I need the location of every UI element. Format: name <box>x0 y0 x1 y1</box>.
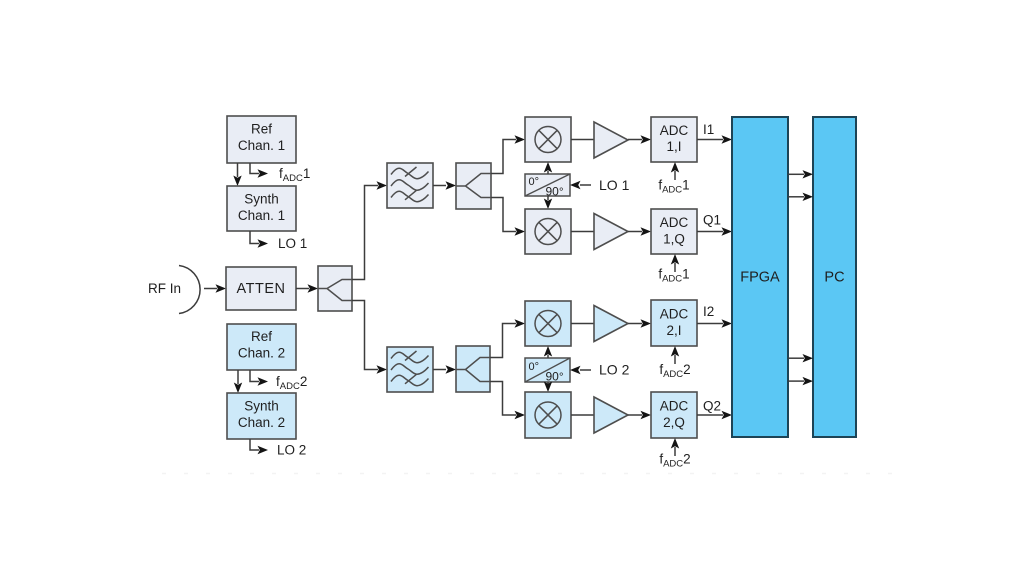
svg-text:Synth: Synth <box>244 192 279 207</box>
attenuator ATTEN <box>226 267 296 310</box>
block ADC 2,I <box>651 300 697 346</box>
wire fADC2 clock into ADC 2,Q <box>671 438 679 456</box>
wire splitter S1 to filter F1 <box>352 181 387 279</box>
wire amplifier A3 to ADC 2,I <box>628 319 651 327</box>
phase shifter P1 (0/90) <box>525 174 570 199</box>
splitter S3 <box>456 346 490 392</box>
block Synth Chan. 2 <box>227 393 296 439</box>
svg-text:Ref: Ref <box>251 329 272 344</box>
wire LO 1 tap from Synth Chan. 1 <box>250 231 268 248</box>
wire LO 2 into phase shifter P2 <box>570 366 591 374</box>
wire splitter S3 to mixer M3 <box>490 319 525 357</box>
svg-text:2,I: 2,I <box>666 323 681 338</box>
svg-text:1,I: 1,I <box>666 139 681 154</box>
svg-text:Ref: Ref <box>251 122 272 137</box>
svg-text:0°: 0° <box>529 176 540 188</box>
svg-text:ADC: ADC <box>660 399 689 414</box>
splitter S2 <box>456 163 491 209</box>
svg-text:LO 2: LO 2 <box>277 443 306 458</box>
wire splitter S2 to mixer M2 <box>491 198 525 236</box>
amplifier A1 <box>594 122 628 158</box>
svg-text:LO 1: LO 1 <box>599 177 630 193</box>
mixer M2 <box>525 209 571 254</box>
svg-text:ATTEN: ATTEN <box>237 281 286 297</box>
wire mixer M2 to amplifier A2 <box>571 231 594 233</box>
block ADC 2,Q <box>651 392 697 438</box>
wire amplifier A1 to ADC 1,I <box>628 135 651 143</box>
block PC <box>813 117 856 437</box>
wire ADC 2,I to FPGA <box>697 319 732 327</box>
mixer M4 <box>525 392 571 438</box>
svg-text:90°: 90° <box>546 370 564 384</box>
svg-text:Chan. 2: Chan. 2 <box>238 415 285 430</box>
wire splitter S1 to filter F2 <box>352 301 387 374</box>
svg-text:I2: I2 <box>703 304 714 319</box>
wire fADC1 clock into ADC 1,I <box>671 162 679 180</box>
wire FPGA to PC (link 2) <box>788 193 813 201</box>
wire RF In to ATTEN <box>204 284 226 292</box>
svg-text:1,Q: 1,Q <box>663 232 685 247</box>
svg-text:2,Q: 2,Q <box>663 415 685 430</box>
wire phase shifter P1 to mixer M1 <box>544 162 552 174</box>
wire FPGA to PC (link 1) <box>788 170 813 178</box>
svg-text:Q2: Q2 <box>703 399 721 414</box>
block Ref Chan. 2 <box>227 324 296 370</box>
block Synth Chan. 1 <box>227 186 296 231</box>
wire fADC2 tap from Ref Chan. 2 <box>250 370 268 386</box>
wire FPGA to PC (link 3) <box>788 354 813 362</box>
wire ADC 2,Q to FPGA <box>697 411 732 419</box>
wire LO 1 into phase shifter P1 <box>570 181 591 189</box>
svg-text:Chan. 1: Chan. 1 <box>238 208 285 223</box>
svg-text:Synth: Synth <box>244 399 279 414</box>
wire phase shifter P2 to mixer M4 <box>544 382 552 393</box>
wire phase shifter P1 to mixer M2 <box>544 196 552 209</box>
svg-text:FPGA: FPGA <box>740 270 780 286</box>
wire mixer M4 to amplifier A4 <box>571 414 594 416</box>
amplifier A3 <box>594 306 628 342</box>
amplifier A4 <box>594 397 628 433</box>
block ADC 1,Q <box>651 209 697 254</box>
svg-text:I1: I1 <box>703 122 714 137</box>
wire mixer M1 to amplifier A1 <box>571 139 594 141</box>
svg-text:LO 1: LO 1 <box>278 236 307 251</box>
wire fADC1 clock into ADC 1,Q <box>671 254 679 272</box>
wire Ref Chan. 1 to Synth Chan. 1 <box>233 163 241 186</box>
svg-text:LO 2: LO 2 <box>599 362 630 378</box>
wire filter F2 to splitter S3 <box>433 365 456 373</box>
wire ADC 1,I to FPGA <box>697 135 732 143</box>
svg-text:Chan. 1: Chan. 1 <box>238 138 285 153</box>
wire FPGA to PC (link 4) <box>788 377 813 385</box>
mixer M3 <box>525 301 571 346</box>
amplifier A2 <box>594 214 628 250</box>
svg-text:ADC: ADC <box>660 307 689 322</box>
wire mixer M3 to amplifier A3 <box>571 323 594 325</box>
svg-text:Chan. 2: Chan. 2 <box>238 346 285 361</box>
wire fADC2 clock into ADC 2,I <box>671 346 679 364</box>
filter F1 (band-pass) <box>387 163 433 208</box>
block FPGA <box>732 117 788 437</box>
svg-text:0°: 0° <box>529 361 540 373</box>
wire amplifier A2 to ADC 1,Q <box>628 227 651 235</box>
splitter S1 <box>318 266 352 311</box>
wire ATTEN to splitter S1 <box>296 284 318 292</box>
wire fADC1 tap from Ref Chan. 1 <box>250 163 268 178</box>
faint caption remnant <box>162 473 910 475</box>
phase shifter P2 (0/90) <box>525 358 570 384</box>
wire phase shifter P2 to mixer M3 <box>544 346 552 358</box>
block ADC 1,I <box>651 117 697 162</box>
wire splitter S3 to mixer M4 <box>490 382 525 420</box>
wire ADC 1,Q to FPGA <box>697 227 732 235</box>
mixer M1 <box>525 117 571 162</box>
antenna RF input port <box>179 266 200 314</box>
block Ref Chan. 1 <box>227 116 296 163</box>
filter F2 (band-pass) <box>387 347 433 392</box>
wire filter F1 to splitter S2 <box>433 181 456 189</box>
wire splitter S2 to mixer M1 <box>491 135 525 173</box>
svg-text:Q1: Q1 <box>703 213 721 228</box>
svg-text:ADC: ADC <box>660 215 689 230</box>
svg-text:PC: PC <box>824 270 844 286</box>
wire Ref Chan. 2 to Synth Chan. 2 <box>234 370 242 393</box>
svg-text:RF In: RF In <box>148 281 181 296</box>
svg-text:ADC: ADC <box>660 123 689 138</box>
wire amplifier A4 to ADC 2,Q <box>628 411 651 419</box>
wire LO 2 tap from Synth Chan. 2 <box>250 439 268 454</box>
